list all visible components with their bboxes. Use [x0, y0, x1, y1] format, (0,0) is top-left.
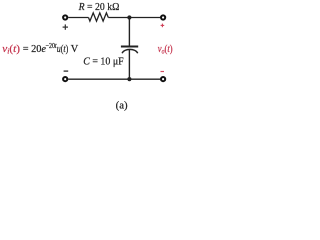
capacitor C bottom lead [128, 49, 130, 79]
svg-text:vo(t): vo(t) [158, 44, 173, 56]
svg-text:20e: 20e [31, 44, 46, 55]
svg-text:vi(t): vi(t) [2, 44, 20, 56]
polarity minus right (red) [161, 71, 165, 73]
capacitor C curved plate [122, 49, 138, 53]
terminal circle top-right [161, 15, 165, 19]
polarity minus left [64, 70, 69, 72]
svg-text:C = 10 μF: C = 10 μF [83, 55, 124, 67]
junction dot bottom [127, 77, 131, 81]
wire bottom [68, 78, 160, 80]
terminal circle bottom-right [161, 77, 165, 81]
terminal circle top-left [63, 15, 67, 19]
wire top-left (source + to resistor) [68, 17, 88, 19]
svg-text:V: V [71, 44, 79, 55]
polarity plus left [63, 24, 68, 29]
capacitor C top lead [128, 18, 130, 46]
svg-text:(a): (a) [116, 100, 128, 112]
svg-text:=: = [23, 44, 29, 55]
capacitor C top plate [121, 46, 138, 48]
polarity plus right (red) [161, 24, 165, 28]
svg-text:u(t): u(t) [57, 44, 69, 55]
resistor R zigzag [89, 13, 109, 21]
svg-text:R = 20 kΩ: R = 20 kΩ [78, 1, 120, 13]
terminal circle bottom-left [63, 77, 67, 81]
junction dot top [127, 15, 131, 19]
wire top-right (resistor to output +) [108, 17, 160, 19]
